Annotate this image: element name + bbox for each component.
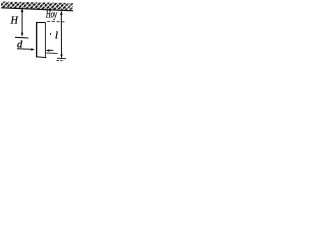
dimension line H (vertical) bbox=[21, 8, 23, 36]
svg-text:l: l bbox=[55, 31, 58, 42]
dimension line l (vertical right) bbox=[60, 11, 62, 58]
ground surface line bbox=[1, 8, 73, 11]
small dot mark bbox=[50, 33, 51, 35]
pile outline: top edge bbox=[36, 22, 46, 24]
level line right of pile bottom bbox=[46, 52, 57, 55]
svg-text:Ноу: Ноу bbox=[45, 8, 57, 20]
pile outline: right edge bbox=[44, 23, 46, 58]
svg-text:H: H bbox=[10, 15, 19, 26]
background bbox=[0, 0, 74, 64]
arrowhead down (to bottom line) bbox=[60, 55, 63, 59]
pile bottom line bbox=[36, 56, 46, 59]
d leader line with right arrow bbox=[17, 48, 33, 51]
arrowhead up (to ground right) bbox=[60, 11, 63, 15]
pile outline: left edge bbox=[36, 22, 38, 57]
arrowhead up (to ground) bbox=[21, 8, 24, 12]
ground hatching band bbox=[1, 0, 74, 12]
level line (left, lower end of H) bbox=[15, 36, 29, 39]
d dimension arrow right side (pointing left) bbox=[47, 49, 54, 51]
bottom level line (right) bbox=[57, 57, 66, 60]
arrowhead down (to level line) bbox=[21, 33, 24, 37]
dashed marks below bottom line bbox=[57, 59, 65, 61]
d right arrowhead bbox=[31, 48, 35, 51]
dashed level line (conditional fixity) bbox=[47, 20, 65, 23]
